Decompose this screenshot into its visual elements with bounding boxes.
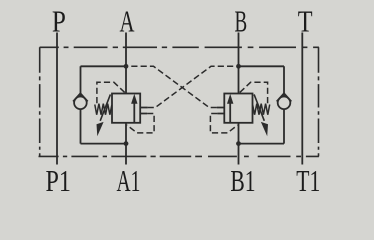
- svg-text:T1: T1: [296, 163, 320, 198]
- svg-text:P1: P1: [46, 163, 71, 198]
- svg-text:B1: B1: [230, 163, 255, 198]
- svg-text:B: B: [234, 4, 247, 39]
- svg-text:A: A: [120, 4, 135, 39]
- svg-text:T: T: [298, 4, 313, 39]
- svg-text:P: P: [52, 4, 66, 39]
- svg-text:A1: A1: [116, 163, 140, 198]
